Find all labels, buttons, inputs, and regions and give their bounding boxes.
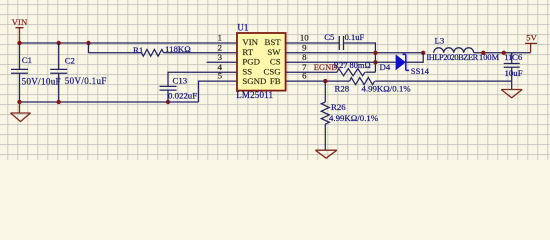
- svg-text:C6: C6: [512, 52, 523, 62]
- wire pin 6 FB to R28: [286, 80, 350, 82]
- wire diode anode: [375, 61, 395, 63]
- ground GND left: [11, 102, 31, 122]
- svg-text:RT: RT: [242, 47, 253, 57]
- svg-text:PGD: PGD: [242, 57, 260, 67]
- resistor R28: [350, 78, 375, 85]
- IC U1 LM25011: [237, 33, 286, 91]
- power port VIN: [16, 28, 24, 43]
- junction VIN rail / C1: [17, 41, 21, 45]
- svg-text:0.022uF: 0.022uF: [168, 91, 197, 101]
- svg-text:U1: U1: [237, 23, 248, 33]
- svg-text:10: 10: [300, 33, 309, 43]
- wire R26 branch vertical: [324, 81, 326, 102]
- resistor R1: [142, 49, 164, 56]
- svg-text:50V/0.1uF: 50V/0.1uF: [65, 76, 107, 86]
- junction ground rail / C1 / GND: [17, 100, 21, 104]
- junction SW / diode cathode: [421, 51, 425, 55]
- wire pin 8 CS: [286, 61, 376, 63]
- svg-text:1: 1: [218, 33, 222, 43]
- junction inductor pin right: [481, 51, 485, 55]
- capacitor C6: [504, 53, 520, 90]
- svg-text:L3: L3: [435, 35, 445, 45]
- capacitor C1: [11, 43, 28, 102]
- wire VIN rail: [20, 42, 238, 44]
- junction CS / vertical: [373, 60, 377, 64]
- svg-text:C2: C2: [65, 55, 75, 65]
- svg-text:10uF: 10uF: [505, 68, 523, 78]
- inductor L3: [434, 48, 474, 53]
- svg-text:R26: R26: [331, 102, 346, 112]
- svg-text:SS14: SS14: [411, 66, 430, 76]
- svg-text:50V/10uF: 50V/10uF: [22, 77, 61, 87]
- wire R26 to ground: [324, 124, 326, 150]
- capacitor C13: [160, 86, 177, 102]
- svg-text:VIN: VIN: [12, 17, 28, 27]
- junction ground rail / C13: [166, 100, 170, 104]
- svg-text:3: 3: [218, 52, 223, 62]
- wire R28 to C6 lead: [375, 80, 512, 82]
- ground GND at R26: [315, 150, 337, 158]
- pin 3 stub PGD: [207, 61, 237, 63]
- svg-text:R27 80mΩ: R27 80mΩ: [334, 61, 371, 70]
- wire R1 left: [89, 52, 142, 54]
- wire C5 to SW node vertical: [344, 43, 376, 72]
- svg-text:FB: FB: [270, 76, 281, 86]
- wire R1 to pin 2: [164, 52, 238, 54]
- wire inductor to output: [474, 52, 531, 54]
- svg-text:IHLP2020BZER: IHLP2020BZER: [426, 53, 478, 62]
- svg-text:D4: D4: [380, 62, 391, 72]
- svg-text:C13: C13: [173, 75, 188, 85]
- svg-text:4.99KΩ/0.1%: 4.99KΩ/0.1%: [362, 83, 412, 93]
- svg-text:C1: C1: [22, 55, 32, 65]
- svg-text:4.99KΩ/0.1%: 4.99KΩ/0.1%: [329, 113, 379, 123]
- junction ground rail / C2: [57, 100, 61, 104]
- wire pin 10 BST to C5: [286, 42, 340, 44]
- wire ground rail: [20, 101, 199, 103]
- svg-text:LM25011: LM25011: [236, 90, 273, 100]
- svg-text:SW: SW: [267, 47, 281, 57]
- wire R1 branch vertical: [88, 43, 90, 53]
- ground GND at C6: [501, 90, 522, 98]
- wire pin 7 CSG to R27: [286, 71, 337, 73]
- resistor R26: [321, 102, 329, 124]
- resistor R27: [337, 69, 365, 76]
- wire pin 9 SW: [286, 52, 424, 54]
- capacitor C2: [50, 43, 67, 102]
- svg-text:R1: R1: [133, 45, 143, 55]
- wire pin 5 SGND to ground rail: [199, 81, 238, 102]
- diode D4: [396, 54, 409, 70]
- junction output wire: [502, 51, 506, 55]
- svg-text:9: 9: [302, 42, 307, 52]
- svg-text:C5: C5: [324, 32, 335, 42]
- junction FB / R26 branch: [323, 79, 327, 83]
- svg-text:0.1uF: 0.1uF: [345, 32, 365, 42]
- junction VIN rail / R1 branch: [86, 41, 90, 45]
- svg-text:CS: CS: [270, 57, 281, 67]
- power port 5V: [525, 43, 537, 52]
- svg-text:5: 5: [218, 71, 223, 81]
- svg-text:VIN: VIN: [242, 37, 258, 47]
- capacitor C5: [339, 36, 343, 50]
- svg-text:5V: 5V: [526, 33, 537, 43]
- junction VIN rail / C2: [57, 41, 61, 45]
- svg-text:BST: BST: [264, 37, 281, 47]
- svg-text:SGND: SGND: [242, 76, 266, 86]
- junction SW / BST vertical: [373, 51, 377, 55]
- svg-text:2: 2: [218, 42, 222, 52]
- svg-text:R28: R28: [335, 83, 350, 93]
- wire diode cathode to SW line: [406, 53, 423, 63]
- wire pin 4 to C13: [168, 72, 237, 86]
- wire R27 to vertical: [366, 71, 376, 73]
